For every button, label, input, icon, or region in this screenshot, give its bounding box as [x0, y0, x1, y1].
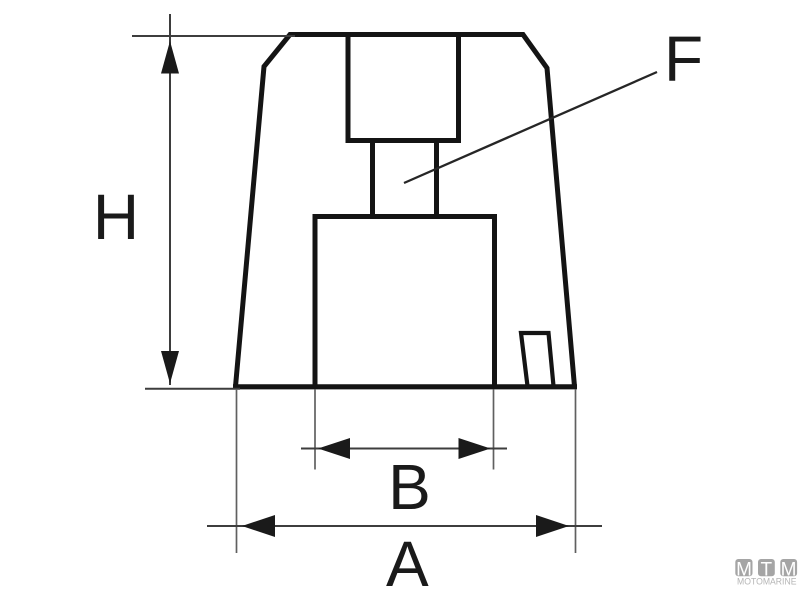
- baseline thin extension left: [145, 388, 240, 390]
- dimension line H vertical: [169, 14, 171, 385]
- svg-text:A: A: [386, 528, 429, 600]
- top extension line: [132, 35, 295, 37]
- extension line A left: [236, 389, 238, 553]
- arrowhead A left: [242, 515, 275, 537]
- extension line B left: [314, 389, 316, 470]
- arrowhead A right: [536, 515, 569, 537]
- body outline (anode cone cross-section): [236, 35, 575, 387]
- svg-text:B: B: [388, 451, 431, 523]
- top slot rectangle: [346, 35, 462, 141]
- svg-text:MOTOMARINE: MOTOMARINE: [737, 577, 797, 588]
- dimension line B: [301, 448, 507, 450]
- key notch: [521, 333, 554, 386]
- leader line F: [404, 72, 657, 183]
- svg-text:H: H: [93, 181, 139, 253]
- dimension line A: [207, 525, 602, 527]
- arrowhead H bottom: [161, 351, 179, 384]
- arrowhead H top: [161, 41, 179, 74]
- logo tile T: [758, 559, 775, 576]
- extension line A right: [575, 389, 577, 553]
- logo tile M1: [735, 559, 752, 576]
- svg-text:F: F: [664, 23, 703, 95]
- arrowhead B right: [459, 438, 491, 459]
- arrowhead B left: [318, 438, 350, 459]
- logo tile M2: [780, 559, 797, 576]
- hub rectangle: [313, 217, 498, 387]
- baseline thick: [233, 384, 577, 389]
- channel (bore F): [373, 141, 437, 217]
- extension line B right: [493, 389, 495, 470]
